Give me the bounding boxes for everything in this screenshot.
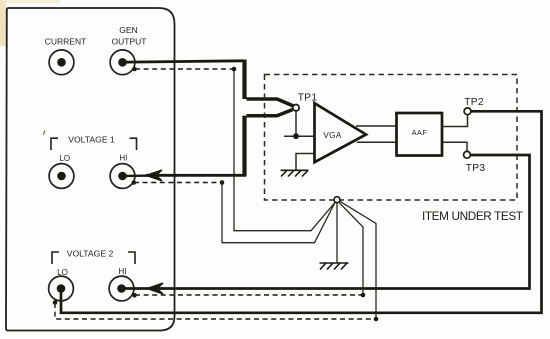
- svg-text:VOLTAGE 1: VOLTAGE 1: [68, 134, 115, 144]
- wire vertical bus upper segment: [242, 60, 246, 100]
- node TP2: [464, 108, 471, 115]
- wire AAF upper output to TP2 riser: [443, 113, 468, 127]
- connector VOLTAGE2 LO: [49, 276, 74, 301]
- junction dot V2HI shield start: [132, 293, 137, 298]
- junction dot GEN shield end: [232, 67, 237, 72]
- wire VGA top input: [284, 135, 315, 137]
- svg-text:HI: HI: [119, 154, 127, 163]
- svg-text:AAF: AAF: [412, 128, 428, 137]
- ground symbol under VGA: [281, 170, 309, 176]
- junction dot GEN shield start: [132, 67, 137, 72]
- wire bus to VOLTAGE1 HI: [123, 174, 161, 177]
- wire vertical bus lower segment: [146, 116, 245, 176]
- connector VOLTAGE1 LO: [49, 164, 74, 189]
- svg-text:OUTPUT: OUTPUT: [112, 36, 147, 46]
- junction dot V2LO shield end: [374, 317, 379, 322]
- instrument front panel: [6, 8, 175, 331]
- star ground node on enclosure: [334, 197, 340, 203]
- wire VGA output lower to AAF: [357, 141, 396, 143]
- ground symbol below star: [320, 263, 349, 269]
- guard wire star to V2 HI shield drop: [338, 202, 363, 295]
- junction dot V1 shield end: [220, 180, 225, 185]
- svg-text:HI: HI: [119, 267, 127, 276]
- connector VOLTAGE1 HI: [110, 164, 135, 189]
- wire TP3 right and down to VOLTAGE2 HI: [122, 155, 530, 289]
- svg-text:VGA: VGA: [323, 131, 341, 140]
- filter block AAF: [397, 113, 443, 156]
- svg-text:VOLTAGE 2: VOLTAGE 2: [67, 248, 114, 258]
- arrowhead into VOLTAGE1 HI: [146, 170, 162, 181]
- wire GEN OUTPUT to vertical bus (thick): [123, 61, 243, 62]
- node TP3: [464, 151, 471, 158]
- scan artifact cream edge: [0, 0, 6, 46]
- node TP1: [293, 105, 299, 111]
- svg-text:TP2: TP2: [464, 97, 484, 108]
- wire VGA bottom input to ground: [296, 154, 315, 170]
- scan speckle: [43, 131, 44, 135]
- connector CURRENT: [49, 50, 74, 75]
- svg-text:ITEM UNDER TEST: ITEM UNDER TEST: [422, 209, 523, 223]
- wire VGA output upper to AAF: [356, 125, 396, 127]
- svg-text:GEN: GEN: [119, 25, 137, 35]
- connector GEN OUTPUT: [110, 50, 135, 75]
- junction dot V1 shield start: [132, 180, 137, 185]
- item under test dashed enclosure: [265, 75, 518, 201]
- shield dashed wire VOLTAGE1 HI: [134, 182, 222, 184]
- wire fork lower prong from TP1: [247, 110, 293, 116]
- wire TP1 down to VGA input junction: [295, 111, 297, 136]
- bracket right VOLTAGE1: [130, 138, 137, 150]
- wire AAF lower output to TP3 riser: [443, 142, 468, 152]
- junction dot V2LO shield start: [53, 300, 58, 305]
- bracket right VOLTAGE2: [128, 252, 135, 264]
- svg-text:TP3: TP3: [466, 163, 486, 174]
- arrowhead into VOLTAGE2 HI: [147, 283, 163, 294]
- junction dot at VGA input: [293, 133, 299, 139]
- guard wire star to V2 LO shield drop: [339, 201, 376, 319]
- wire fork upper prong to TP1: [247, 99, 294, 106]
- wire TP2 right and down to VOLTAGE2 LO: [61, 111, 542, 312]
- svg-text:CURRENT: CURRENT: [45, 36, 87, 46]
- shield dashed wire VOLTAGE2 HI: [135, 294, 363, 296]
- shield dashed wire VOLTAGE2 LO: [55, 303, 376, 319]
- op-amp VGA: [315, 103, 367, 162]
- connector VOLTAGE2 HI: [109, 276, 134, 301]
- bracket left VOLTAGE2: [52, 252, 59, 264]
- bracket left VOLTAGE1: [51, 138, 58, 150]
- wire star to ground: [336, 203, 338, 263]
- guard wire star to upper-left horizontal: [234, 69, 336, 231]
- svg-text:LO: LO: [59, 154, 70, 163]
- shield dashed wire GEN OUTPUT: [135, 68, 234, 70]
- guard wire star to lower-left horizontal: [222, 183, 335, 243]
- junction dot V2HI shield end: [361, 293, 366, 298]
